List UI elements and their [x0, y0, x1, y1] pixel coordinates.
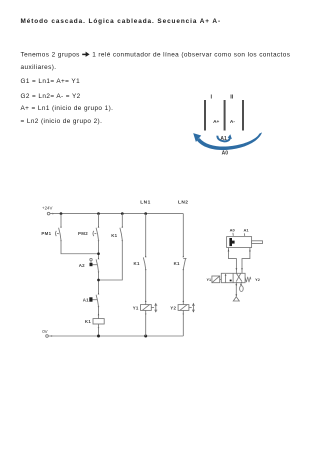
node top PM2 — [97, 212, 100, 215]
cylinder left port wire — [229, 248, 237, 274]
piston rod — [252, 241, 263, 244]
pushbutton PM1 — [55, 226, 61, 242]
valve left square arrow — [225, 274, 232, 283]
svg-text:A0: A0 — [222, 151, 229, 157]
svg-text:+24V: +24V — [42, 206, 52, 211]
svg-text:Y1: Y1 — [206, 278, 211, 282]
valve right square cross — [236, 273, 243, 283]
contact K1 latch — [120, 214, 123, 242]
contact K1 LN1 — [143, 256, 146, 272]
svg-text:A1: A1 — [243, 228, 249, 233]
pushbutton PM2 — [93, 226, 99, 242]
wire Y2 to rail — [182, 310, 184, 336]
wire A2 to node — [98, 272, 100, 295]
line A+ — [21, 105, 114, 112]
NC contact K1 LN2 — [183, 256, 187, 272]
svg-text:A1: A1 — [220, 136, 227, 142]
svg-text:A-: A- — [230, 119, 235, 125]
node top K1 — [121, 212, 124, 215]
terminal tick — [51, 335, 53, 337]
silencer — [240, 286, 244, 292]
svg-text:Y2: Y2 — [255, 278, 260, 282]
node top PM1 — [60, 212, 63, 215]
bottom rail wire — [48, 335, 183, 337]
flow arrow P2 — [235, 294, 237, 296]
solenoid Y1 box — [212, 276, 221, 283]
flow arrow P1 — [235, 284, 237, 286]
exhaust port wire — [240, 283, 242, 286]
flow arrow R — [240, 284, 242, 286]
line Ln2 — [21, 118, 103, 125]
flow arrow right port — [249, 249, 251, 251]
solenoid coil Y2 — [178, 300, 195, 315]
wire PM1 branch upper — [60, 214, 62, 228]
cylinder body — [227, 237, 252, 248]
svg-text:A0: A0 — [230, 228, 236, 233]
air supply triangle — [233, 297, 239, 301]
node bottom Y1 — [144, 335, 147, 338]
wire Y1 to rail — [145, 310, 147, 336]
node bottom K1 — [97, 335, 100, 338]
top rail wire — [50, 213, 183, 215]
svg-text:PM2: PM2 — [78, 231, 88, 236]
svg-text:K1: K1 — [85, 319, 91, 324]
return spring — [245, 277, 251, 282]
svg-text:0V: 0V — [42, 329, 47, 334]
svg-text:K1: K1 — [111, 233, 117, 238]
flow arrow valve B — [241, 268, 243, 270]
svg-text:Y2: Y2 — [170, 305, 176, 310]
limit switch A2 — [90, 258, 100, 274]
svg-text:I: I — [211, 95, 213, 101]
phase line left — [204, 100, 206, 131]
+24V terminal — [47, 212, 50, 215]
svg-text:A1: A1 — [83, 298, 89, 303]
wire LN2 mid — [182, 269, 184, 304]
wire PM2 to A2 — [98, 240, 100, 258]
title — [21, 18, 222, 25]
svg-text:LN2: LN2 — [178, 199, 188, 205]
svg-text:A+: A+ — [213, 119, 219, 125]
line G2 — [21, 93, 81, 100]
svg-text:PM1: PM1 — [41, 231, 51, 236]
wire PM2 branch upper — [98, 214, 100, 228]
svg-text:A2: A2 — [79, 263, 85, 268]
svg-text:LN1: LN1 — [140, 199, 150, 205]
line G1 — [21, 78, 81, 85]
node latch join — [97, 279, 100, 282]
relay coil K1 — [93, 314, 104, 329]
paragraph line 2 — [21, 64, 57, 71]
piston rod stub — [232, 241, 235, 244]
valve divider — [232, 273, 234, 282]
solenoid coil Y1 — [141, 300, 158, 315]
valve 5/2 body — [221, 273, 245, 282]
phase line right — [242, 100, 244, 131]
node top LN1 — [144, 212, 147, 215]
svg-text:K1: K1 — [133, 261, 139, 266]
svg-text:II: II — [230, 95, 234, 101]
terminal tick — [53, 213, 55, 215]
wire LN2 upper — [182, 214, 184, 257]
arrow A0 big arc — [193, 132, 262, 150]
svg-text:Y1: Y1 — [133, 305, 139, 310]
A1 position tick — [243, 233, 245, 236]
wire A1 to coil — [98, 307, 100, 319]
wire K1 latch down-left — [99, 240, 123, 280]
phase line middle — [224, 100, 226, 131]
wire LN1 mid — [145, 269, 147, 304]
node PM join — [97, 252, 100, 255]
wire LN1 upper — [145, 214, 147, 257]
wire PM1 branch lower — [61, 240, 99, 254]
A0 position tick — [232, 233, 234, 236]
cylinder right port wire — [242, 248, 250, 274]
svg-text:K1: K1 — [174, 261, 180, 266]
limit switch A1 — [89, 293, 99, 308]
0V terminal — [46, 335, 49, 338]
flow arrow valve A — [236, 268, 238, 270]
flow arrow left port — [228, 249, 230, 251]
pressure port wire — [235, 283, 237, 297]
paragraph line 1 — [21, 51, 291, 59]
cylinder piston — [229, 238, 232, 246]
wire coil to rail — [98, 324, 100, 336]
arrow A1 small arc — [217, 134, 232, 141]
